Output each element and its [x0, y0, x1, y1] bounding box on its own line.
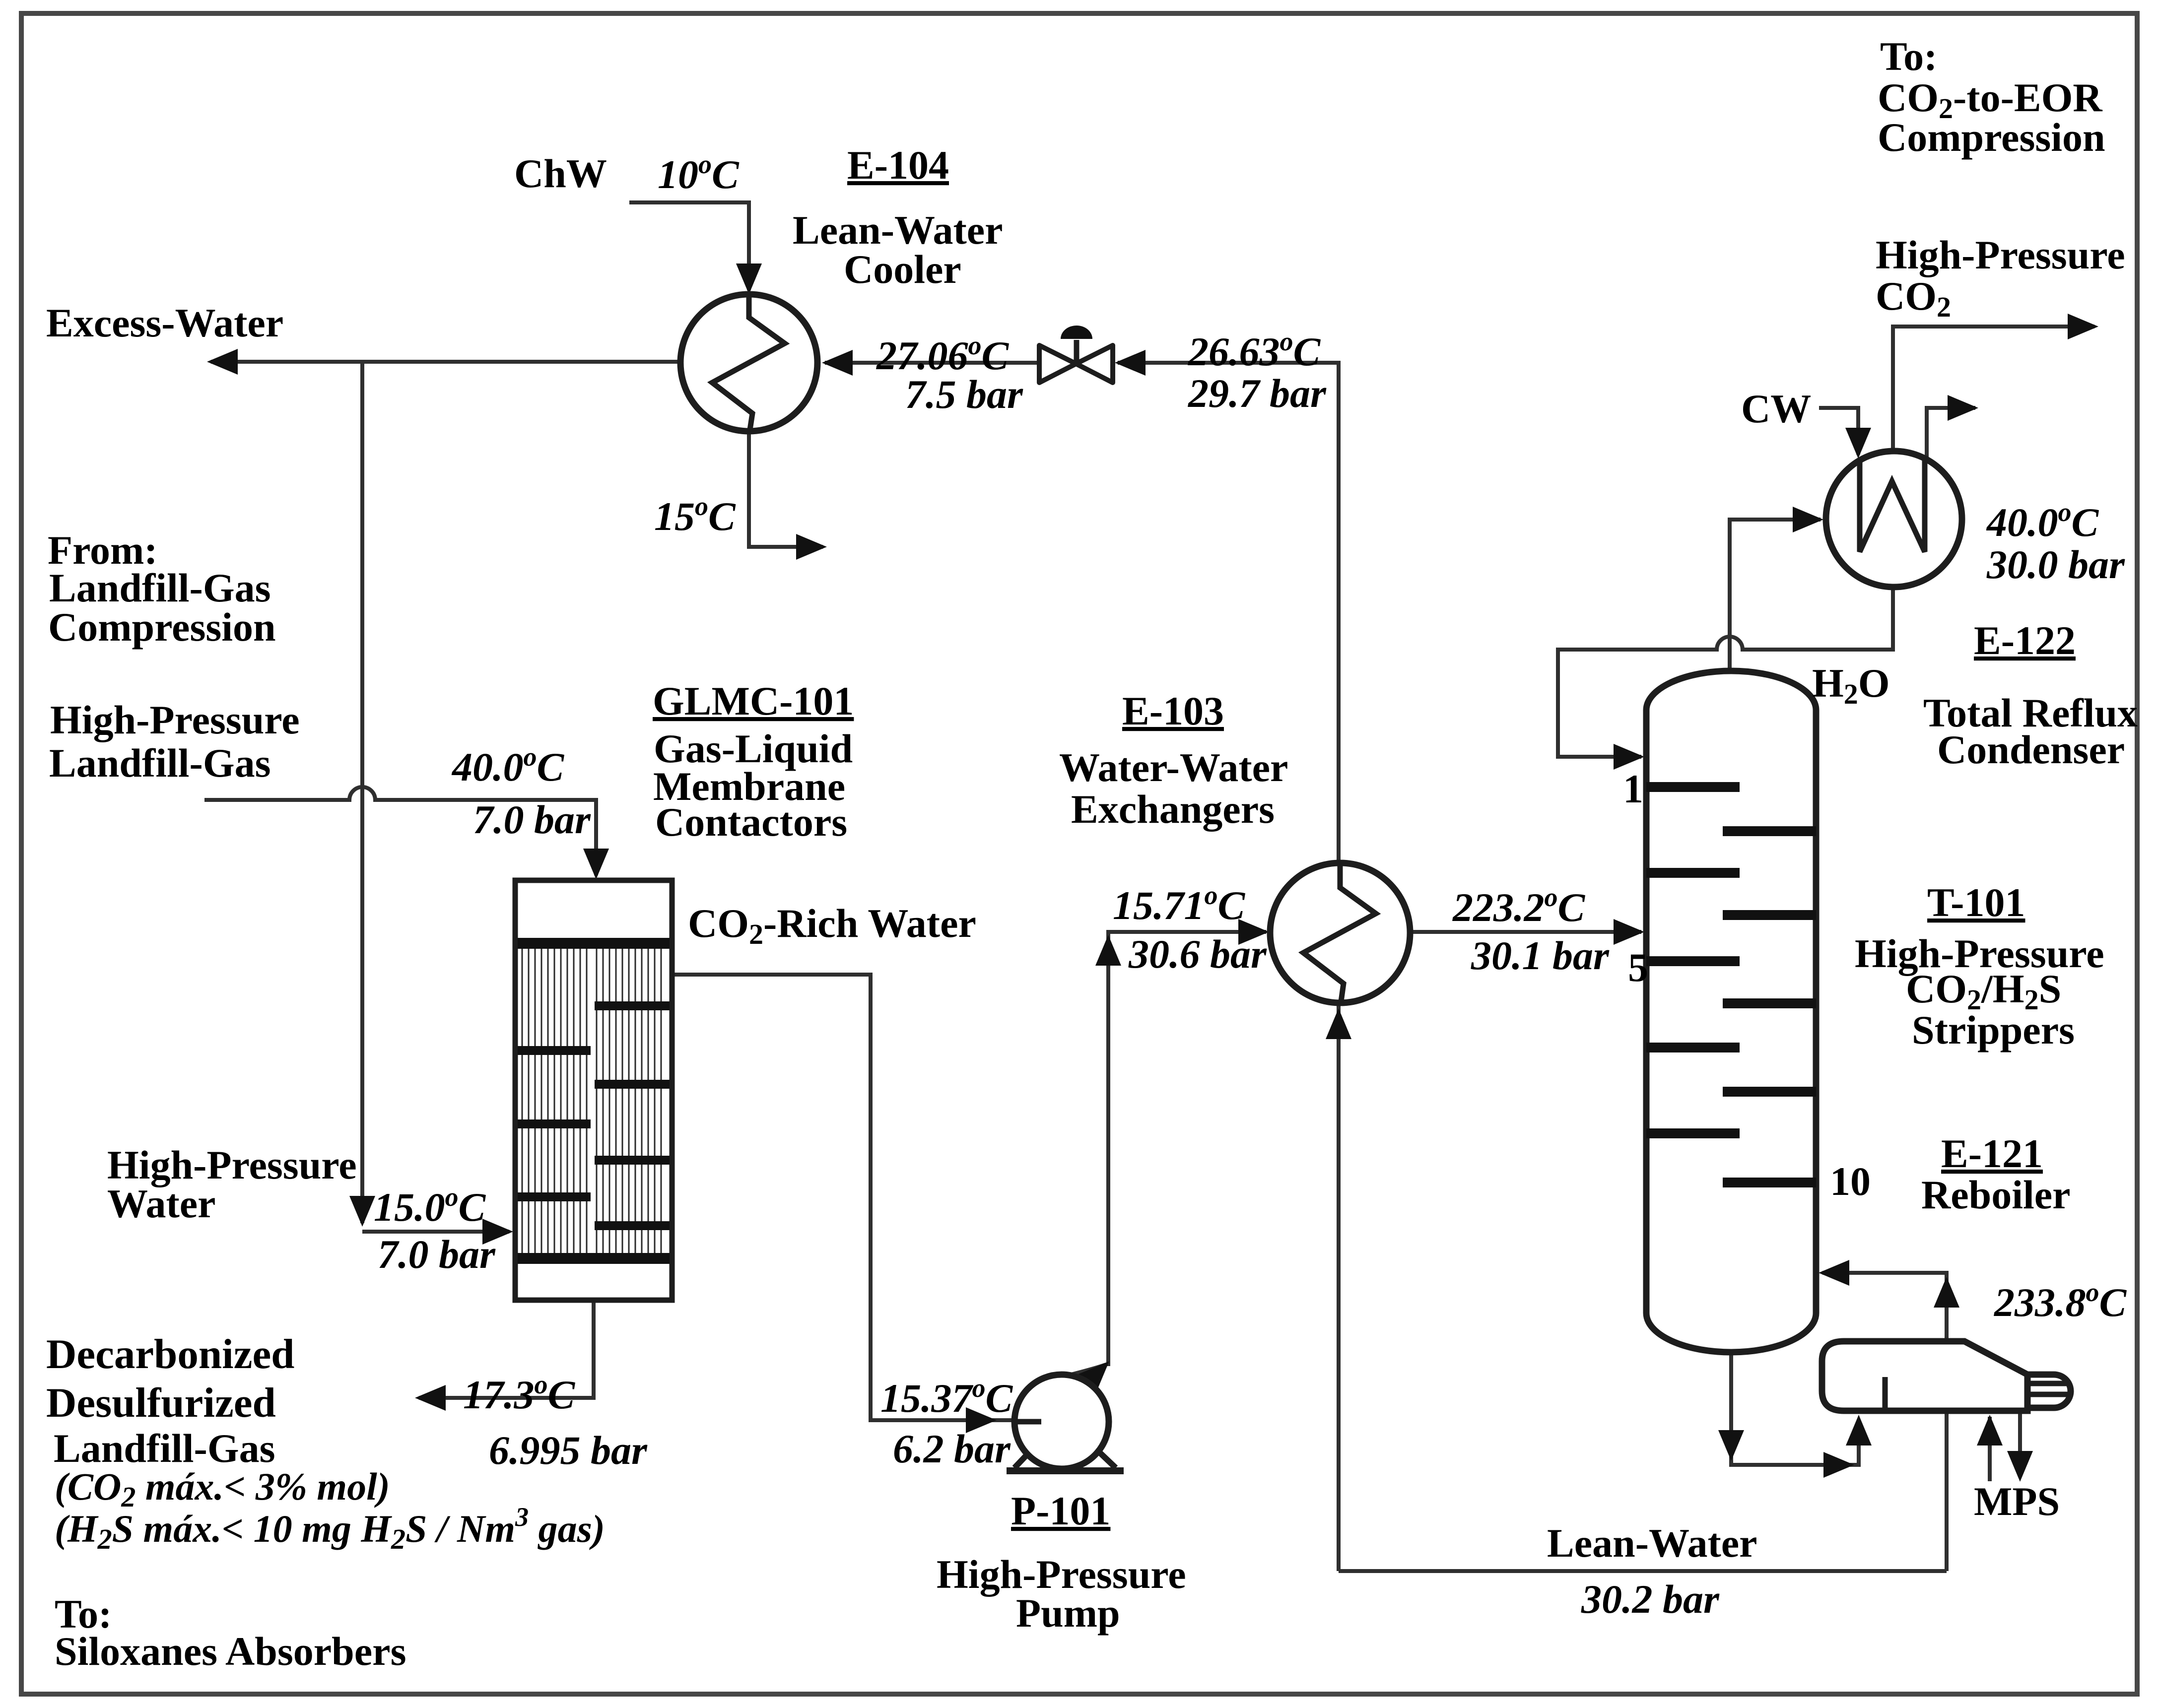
svg-text:15.37oC: 15.37oC: [880, 1373, 1013, 1421]
svg-text:Compression: Compression: [1878, 115, 2105, 160]
svg-text:Excess-Water: Excess-Water: [46, 300, 283, 345]
svg-text:27.06oC: 27.06oC: [876, 330, 1010, 378]
svg-text:Water: Water: [107, 1181, 216, 1226]
svg-text:Landfill-Gas: Landfill-Gas: [49, 565, 271, 610]
svg-text:Reboiler: Reboiler: [1921, 1172, 2071, 1217]
svg-text:GLMC-101: GLMC-101: [653, 678, 854, 723]
svg-text:15.0oC: 15.0oC: [374, 1182, 486, 1230]
svg-text:Condenser: Condenser: [1937, 727, 2125, 772]
svg-text:ChW: ChW: [514, 151, 607, 196]
svg-text:CW: CW: [1741, 386, 1811, 431]
svg-text:High-Pressure: High-Pressure: [1876, 232, 2125, 277]
svg-text:E-122: E-122: [1974, 618, 2076, 663]
svg-text:40.0oC: 40.0oC: [1986, 497, 2099, 545]
svg-text:High-Pressure: High-Pressure: [50, 697, 300, 742]
svg-text:7.0 bar: 7.0 bar: [473, 797, 591, 842]
svg-text:E-104: E-104: [847, 142, 949, 188]
svg-text:15.71oC: 15.71oC: [1113, 880, 1246, 928]
svg-text:7.0 bar: 7.0 bar: [378, 1232, 496, 1277]
svg-text:P-101: P-101: [1011, 1488, 1110, 1533]
svg-text:Decarbonized: Decarbonized: [46, 1331, 294, 1378]
svg-text:(CO2 máx.< 3% mol): (CO2 máx.< 3% mol): [55, 1465, 390, 1513]
svg-text:Contactors: Contactors: [655, 799, 847, 845]
svg-text:30.1 bar: 30.1 bar: [1471, 933, 1610, 978]
svg-text:Water-Water: Water-Water: [1059, 745, 1288, 790]
svg-text:MPS: MPS: [1974, 1479, 2060, 1524]
svg-text:Lean-Water: Lean-Water: [793, 207, 1003, 253]
svg-text:30.6 bar: 30.6 bar: [1128, 931, 1267, 977]
svg-text:233.8oC: 233.8oC: [1994, 1277, 2127, 1325]
svg-text:Compression: Compression: [48, 604, 276, 650]
svg-text:17.3oC: 17.3oC: [463, 1370, 576, 1417]
svg-text:26.63oC: 26.63oC: [1188, 327, 1321, 374]
svg-text:Pump: Pump: [1016, 1590, 1120, 1636]
svg-text:30.2 bar: 30.2 bar: [1581, 1577, 1720, 1622]
svg-text:5: 5: [1628, 945, 1648, 990]
svg-text:29.7 bar: 29.7 bar: [1188, 371, 1327, 416]
svg-text:High-Pressure: High-Pressure: [1855, 931, 2104, 976]
svg-text:223.2oC: 223.2oC: [1452, 882, 1586, 930]
svg-text:6.2 bar: 6.2 bar: [893, 1426, 1011, 1471]
svg-text:Siloxanes Absorbers: Siloxanes Absorbers: [55, 1629, 406, 1674]
svg-text:CO2-Rich Water: CO2-Rich Water: [688, 901, 976, 950]
svg-text:Lean-Water: Lean-Water: [1547, 1520, 1757, 1566]
svg-text:Desulfurized: Desulfurized: [46, 1380, 276, 1426]
svg-text:10: 10: [1830, 1159, 1871, 1204]
svg-text:7.5 bar: 7.5 bar: [905, 372, 1023, 417]
svg-text:Cooler: Cooler: [844, 247, 961, 292]
svg-text:6.995 bar: 6.995 bar: [489, 1428, 648, 1473]
svg-text:T-101: T-101: [1927, 880, 2025, 925]
svg-text:To:: To:: [1880, 34, 1937, 79]
svg-text:40.0oC: 40.0oC: [451, 742, 565, 789]
svg-text:30.0 bar: 30.0 bar: [1986, 542, 2125, 587]
svg-text:Exchangers: Exchangers: [1071, 787, 1275, 832]
svg-text:E-121: E-121: [1941, 1131, 2043, 1176]
svg-text:Landfill-Gas: Landfill-Gas: [49, 740, 271, 786]
svg-text:1: 1: [1623, 766, 1643, 811]
svg-text:E-103: E-103: [1122, 688, 1224, 733]
svg-text:Strippers: Strippers: [1912, 1007, 2075, 1052]
svg-text:Landfill-Gas: Landfill-Gas: [54, 1426, 275, 1471]
